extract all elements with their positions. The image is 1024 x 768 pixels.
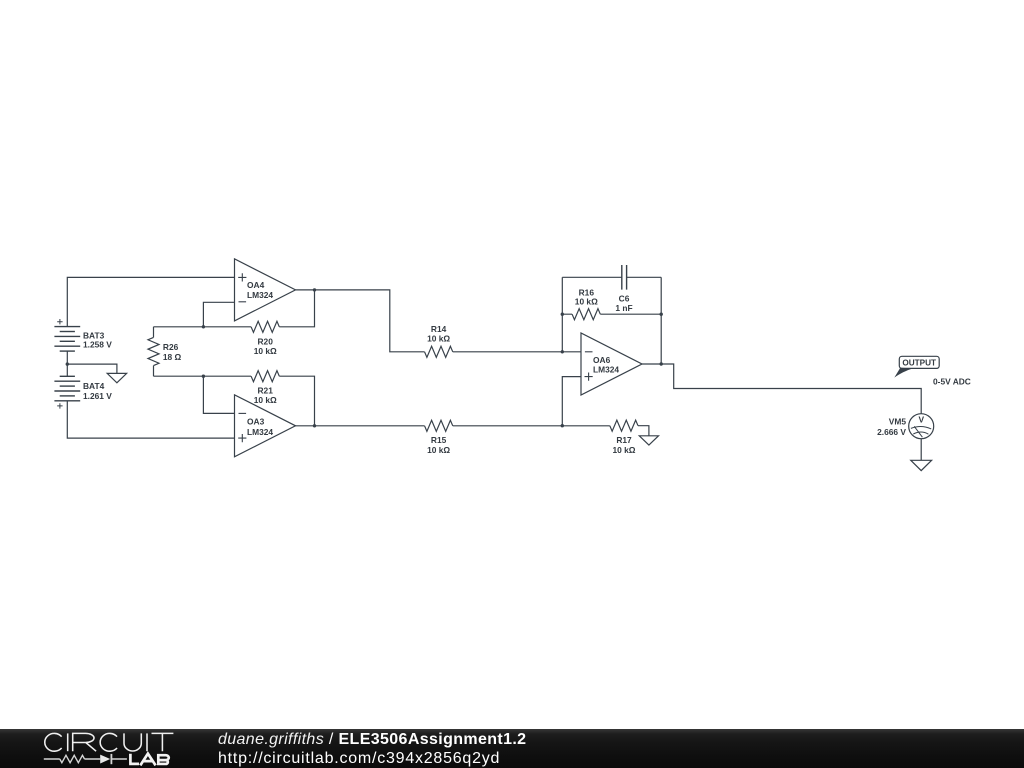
wire OA6 output to voltmeter VM5 [642, 364, 921, 414]
logo CIRCUIT text [45, 733, 174, 751]
svg-text:LM324: LM324 [593, 364, 619, 374]
svg-text:R21: R21 [258, 386, 274, 396]
svg-text:R14: R14 [431, 324, 447, 334]
wire OA4 inverting input to R26 top net [203, 302, 234, 327]
svg-text:1.261 V: 1.261 V [83, 391, 112, 401]
svg-text:C6: C6 [619, 293, 630, 303]
op-amp OA4 [235, 259, 296, 321]
wire feedback loop left vertical [561, 277, 563, 352]
wire R26 bottom net with riser to OA3 output [154, 376, 315, 426]
junction at R14 right / feedback node [561, 350, 564, 353]
wire OA3 output through R15 to R17 and ground G2 [296, 426, 649, 436]
junction at OA3 output node [313, 424, 316, 427]
junction at R16 right / OA6 output branch [660, 313, 663, 316]
svg-text:V: V [919, 415, 925, 425]
wire VM5 to ground G3 [920, 439, 922, 461]
wire OA4 output to R14 to OA6 inverting input [296, 290, 582, 352]
wire BAT4 bottom to OA3 + input [67, 401, 234, 438]
svg-text:1.258 V: 1.258 V [83, 340, 112, 350]
svg-text:R26: R26 [163, 342, 179, 352]
wire feedback loop right vertical [660, 277, 662, 364]
wire mid node to ground G1 [67, 364, 117, 373]
wire OA6 noninverting input down to R15 net [562, 377, 581, 426]
svg-text:BAT4: BAT4 [83, 381, 105, 391]
svg-text:10 kΩ: 10 kΩ [427, 334, 450, 344]
ground G1 [107, 373, 126, 382]
battery BAT4 [54, 376, 80, 401]
op-amp OA6 [581, 333, 642, 395]
svg-text:R17: R17 [616, 435, 632, 445]
resistor R14 [425, 346, 453, 357]
junction at R26 top / OA4 inverting node [202, 325, 205, 328]
svg-text:10 kΩ: 10 kΩ [427, 445, 450, 455]
svg-text:18 Ω: 18 Ω [163, 352, 182, 362]
output flag OUTPUT [894, 356, 939, 377]
svg-text:1 nF: 1 nF [615, 303, 632, 313]
component labels [83, 280, 971, 455]
resistor R20 [251, 321, 279, 332]
svg-text:10 kΩ: 10 kΩ [612, 445, 635, 455]
junction at R15 right / OA6 noninverting node [561, 424, 564, 427]
svg-text:OA4: OA4 [247, 280, 265, 290]
svg-text:OA3: OA3 [247, 417, 265, 427]
junction at R26 bottom / OA3 inverting node [202, 375, 205, 378]
svg-text:R20: R20 [258, 336, 274, 346]
resistor R21 [251, 371, 279, 382]
resistor R17 [610, 420, 638, 431]
capacitor C6 [622, 265, 627, 290]
wire R16 branch [562, 313, 661, 315]
svg-text:LM324: LM324 [247, 290, 273, 300]
wire feedback loop top with C6 gap [562, 276, 661, 278]
op-amp OA3 [235, 395, 296, 457]
svg-text:2.666 V: 2.666 V [877, 427, 906, 437]
wire battery positive to OA4 + input [67, 277, 234, 326]
ground G2 [639, 436, 658, 445]
resistor R26 [153, 327, 155, 376]
voltmeter VM5 [909, 414, 934, 439]
logo LAB text [129, 754, 169, 766]
svg-text:VM5: VM5 [889, 417, 907, 427]
battery BAT3 [54, 327, 80, 352]
footer bar [0, 729, 1024, 768]
svg-text:R15: R15 [431, 435, 447, 445]
resistor R15 [425, 420, 453, 431]
svg-text:10 kΩ: 10 kΩ [575, 296, 598, 306]
junction at R16 left / OA6 inverting node [561, 313, 564, 316]
svg-text:OUTPUT: OUTPUT [902, 358, 936, 367]
footer title text [218, 730, 526, 768]
logo resistor-diode symbol [44, 754, 127, 764]
svg-text:10 kΩ: 10 kΩ [254, 346, 277, 356]
resistor R16 [572, 309, 600, 320]
svg-text:LM324: LM324 [247, 427, 273, 437]
wire OA3 inverting input to R26 bottom net [203, 376, 234, 413]
wire R26 top net with riser to OA4 output [154, 290, 315, 327]
junction at battery midpoint node [66, 362, 69, 365]
wire BAT3 bottom to BAT4 top through mid node [66, 351, 68, 376]
svg-text:10 kΩ: 10 kΩ [254, 395, 277, 405]
svg-text:0-5V ADC: 0-5V ADC [933, 377, 971, 387]
junction at OA6 output node [660, 362, 663, 365]
junction at OA4 output node [313, 288, 316, 291]
ground G3 [911, 460, 932, 470]
